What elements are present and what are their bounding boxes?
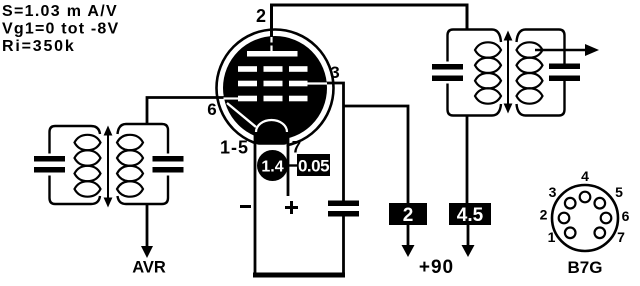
pin hole 6 <box>601 213 612 224</box>
wire output tap <box>535 49 587 51</box>
coil L3 loops <box>475 42 501 57</box>
svg-text:6: 6 <box>207 100 216 119</box>
plus sign <box>285 206 298 209</box>
wire cap to rail <box>342 217 345 275</box>
pin hole 3 <box>565 198 576 209</box>
internal lead to filament <box>227 103 256 127</box>
meter 4.5 mA box <box>449 203 491 225</box>
svg-text:6: 6 <box>622 208 630 224</box>
pin hole 1 <box>565 228 576 239</box>
right IF transformer: secondary frame <box>517 30 565 116</box>
svg-text:Vg1=0 tot -8V: Vg1=0 tot -8V <box>2 21 119 38</box>
svg-text:+90: +90 <box>419 257 454 278</box>
svg-text:7: 7 <box>617 229 625 245</box>
filament voltage 1.4 <box>257 150 288 181</box>
arrow output <box>585 44 599 56</box>
right IF transformer: primary frame <box>448 30 502 116</box>
cathode dome <box>256 120 287 145</box>
tuning arrow left transformer <box>107 133 109 200</box>
wire transformer to 4.5 <box>466 116 469 204</box>
svg-text:1-5: 1-5 <box>220 138 249 158</box>
envelope gap behind cathode <box>257 138 287 150</box>
wire bottom rail <box>253 273 345 278</box>
grid g1 row <box>238 96 257 102</box>
svg-text:5: 5 <box>615 184 623 200</box>
g1 lead to pin6 inside <box>224 97 240 99</box>
tuning arrow right transformer <box>507 38 509 106</box>
capacitor C5 bars <box>549 64 580 70</box>
pin hole 5 <box>595 198 606 209</box>
svg-text:S=1.03 m A/V: S=1.03 m A/V <box>2 3 118 20</box>
svg-text:7: 7 <box>292 138 301 157</box>
svg-text:3: 3 <box>549 184 557 200</box>
svg-text:1.4: 1.4 <box>261 159 283 176</box>
left IF transformer: primary frame <box>50 126 101 204</box>
coil L1 loops <box>75 135 101 150</box>
svg-text:AVR: AVR <box>132 259 166 277</box>
wire grid2 pin3 to screen node <box>326 83 344 201</box>
anode lead inside <box>270 37 272 43</box>
grid g2 row <box>238 81 257 87</box>
filament leg pin 7 <box>287 130 290 196</box>
wire screen branch to meter <box>344 106 409 203</box>
pin hole 7 <box>595 228 606 239</box>
arrow AVR <box>141 246 153 258</box>
left IF transformer: secondary frame <box>118 124 169 204</box>
svg-text:1: 1 <box>548 229 556 245</box>
coil L2 loops <box>117 135 143 150</box>
tube electrode disc <box>223 36 327 140</box>
svg-text:Ri=350k: Ri=350k <box>2 38 76 55</box>
wire secondary to grid pin 6 <box>147 98 225 125</box>
svg-text:B7G: B7G <box>568 258 603 277</box>
g2 lead to pin3 inside <box>306 82 327 84</box>
capacitor C3 screen bypass <box>328 201 359 207</box>
minus sign <box>240 205 251 208</box>
wire to 0.05 <box>288 164 298 166</box>
svg-text:2: 2 <box>403 205 414 226</box>
arrow meter 4.5 <box>467 225 470 247</box>
svg-text:4.5: 4.5 <box>457 205 484 226</box>
filament current 0.05 <box>297 154 330 176</box>
svg-text:2: 2 <box>540 207 548 223</box>
svg-text:4: 4 <box>581 168 589 184</box>
B7G base outline <box>552 185 618 251</box>
tube V1 envelope <box>217 30 334 147</box>
wire anode pin2 to right transformer top <box>272 5 468 37</box>
coil L4 loops <box>517 42 543 57</box>
capacitor C1 bars <box>34 156 65 162</box>
capacitor C2 bars <box>153 156 184 162</box>
svg-text:2: 2 <box>256 6 266 26</box>
arrow meter 2 <box>407 225 410 247</box>
svg-text:0.05: 0.05 <box>298 157 329 176</box>
meter 2 mA box <box>389 203 427 225</box>
wire AVR lead <box>146 204 149 248</box>
svg-text:3: 3 <box>330 63 339 82</box>
pin hole 4 <box>580 192 591 203</box>
anode plate bar <box>247 51 298 57</box>
pin hole 2 <box>559 213 570 224</box>
grid g3 row <box>238 66 257 72</box>
filament leg pins 1-5 <box>254 130 257 275</box>
capacitor C4 bars <box>432 64 463 70</box>
